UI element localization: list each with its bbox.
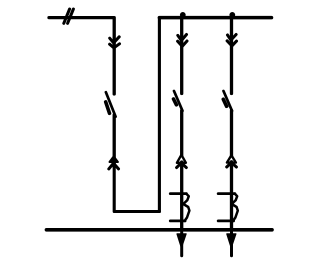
wire middle branch lower (gap inside drawout triangle) (180, 111, 183, 230)
drawout contact (double chevron down) left branch (110, 37, 120, 48)
wire right branch below bottom bus to load (230, 230, 233, 256)
wire incoming lead top-left with corner down (49, 18, 114, 94)
drawout contact (open triangle + chevron up) right branch (227, 155, 237, 167)
wire middle branch upper (180, 18, 183, 94)
current transformer right branch (bar-3-bar) (218, 194, 238, 221)
arrow head right feeder (227, 234, 236, 248)
drawout contact (double chevron down) middle branch (178, 35, 187, 47)
wire right branch upper (230, 18, 233, 94)
wire riser from feeder loop bottom up to top busbar (158, 18, 161, 212)
break mark (double slash) on incoming line (64, 9, 74, 23)
current transformer middle branch (bar-3-bar) (170, 194, 189, 221)
node junction dot middle branch on top bus (180, 12, 186, 18)
fuse-disconnector switch right branch (223, 91, 232, 111)
bottom busbar (47, 228, 273, 232)
wire right branch lower (gap inside drawout triangle) (230, 111, 233, 230)
fuse-disconnector switch left branch (106, 92, 116, 116)
arrow head middle feeder (177, 234, 186, 248)
fuse-disconnector switch middle branch (174, 91, 183, 111)
drawout contact (double chevron down) right branch (227, 35, 236, 46)
wire left branch below switch (113, 115, 116, 167)
drawout contact (double chevron up) left branch (109, 156, 119, 169)
drawout contact (open triangle + chevron up) middle branch (177, 155, 187, 168)
wire middle branch below bottom bus to load (180, 230, 183, 256)
top busbar (159, 16, 271, 20)
node junction dot right branch on top bus (229, 12, 235, 18)
wire bottom of left feeder loop (114, 167, 159, 212)
